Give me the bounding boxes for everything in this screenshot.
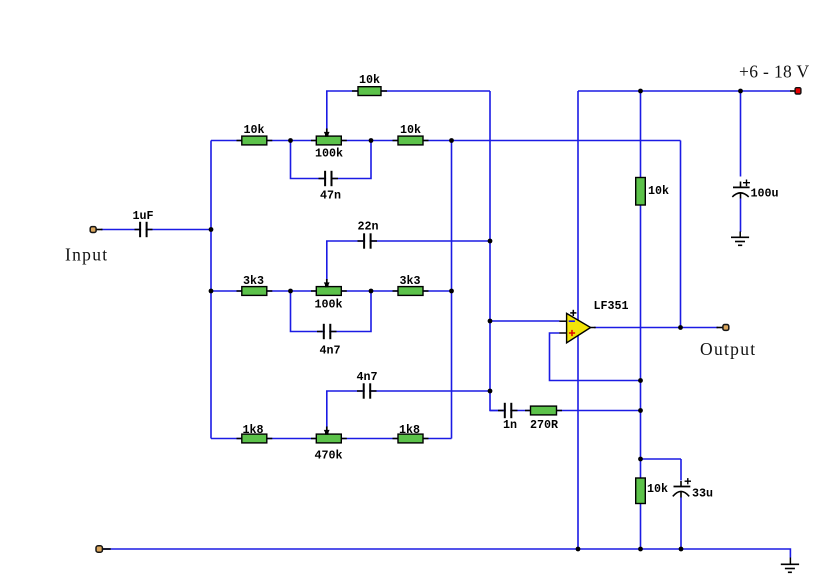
wire op-amp output y=327.5 [594,327,718,329]
svg-text:1n: 1n [503,418,517,432]
node rail bias junction [638,547,643,552]
resistor R 1k8 band3 left [237,423,273,443]
wire output drop x=680.5 [680,141,682,328]
wire input bus x=211 [210,141,212,439]
node bias 33u junction [638,457,643,462]
potentiometer 100k band2 [311,279,347,312]
op-amp U1 LF351 [559,299,628,343]
svg-text:10k: 10k [359,73,380,87]
capacitor C 100u electrolytic [732,180,778,201]
potentiometer 100k band1 [311,129,347,161]
wire 1n 270R row y=410.5 [490,410,641,412]
potentiometer 470k band3 [311,427,347,463]
wire band1 row y=140 [211,140,681,142]
wire noninverting stub and feedback [550,333,641,381]
wire input coupling y=229.5 [101,229,211,231]
svg-text:100u: 100u [751,187,779,201]
resistor R 10k bias upper (vertical) [636,178,669,206]
terminal supply red [790,88,801,94]
svg-text:470k: 470k [314,449,342,463]
node power rail bias junction [638,89,643,94]
node 4n7 bus junction [488,389,493,394]
wire 33u drop x=681 [680,459,682,481]
svg-text:1uF: 1uF [132,209,153,223]
svg-text:3k3: 3k3 [399,274,420,288]
svg-text:100k: 100k [315,147,343,161]
node input junction [209,227,214,232]
svg-text:100k: 100k [314,298,342,312]
resistor R 3k3 band2 right [393,274,429,295]
resistor R 10k band1 right [393,123,429,145]
svg-text:+6 - 18 V: +6 - 18 V [739,62,810,82]
resistor R 10k top feedback [352,73,387,96]
node rail supply junction [576,547,581,552]
wire inverting input y=321 [490,320,560,322]
wire band collect x=451.5 [451,141,453,439]
ground under 100u [731,232,749,246]
resistor R 10k band1 left [237,123,273,145]
wire bottom rail y=549 [103,549,790,558]
terminal ground bottom left [96,546,111,552]
svg-text:Input: Input [65,245,108,265]
wire 4n7 band3 row y=391 [327,391,490,427]
node rail 33u junction [679,547,684,552]
node 22n bus junction [488,239,493,244]
svg-text:10k: 10k [647,482,668,496]
node feedback junction [638,378,643,383]
svg-text:10k: 10k [648,184,669,198]
node band2 nodeB junction [369,289,374,294]
capacitor C 1uF input [132,209,153,237]
svg-text:LF351: LF351 [593,299,628,313]
wire supply line x=578 through op-amp [577,91,579,549]
wire 33u branch y=459 [641,458,682,460]
node power rail 100u junction [738,89,743,94]
capacitor C 22n band2 [357,220,378,249]
node inverting input junction [488,319,493,324]
node band2 right T junction [449,289,454,294]
node band1 right T junction [449,138,454,143]
svg-text:4n7: 4n7 [319,344,340,358]
wire 47n loop [291,141,372,179]
node output junction [678,325,683,330]
svg-text:1k8: 1k8 [242,423,263,437]
node band2 nodeA junction [288,289,293,294]
capacitor C 1n [498,403,518,432]
resistor R 1k8 band3 right [393,423,429,443]
svg-text:270R: 270R [530,418,558,432]
capacitor C 47n band1 [319,171,342,203]
wire bias line x=640 [640,91,642,549]
svg-text:1k8: 1k8 [399,423,420,437]
wire 33u to rail [680,498,682,550]
wire minus-input bus x=490 [490,91,504,411]
node 270R bias junction [638,408,643,413]
svg-text:4n7: 4n7 [356,370,377,384]
svg-text:Output: Output [700,339,756,359]
resistor R 10k bias lower (vertical) [636,478,668,504]
capacitor C 4n7 band3 [356,370,377,399]
wire 22n row y=241 [327,241,490,280]
capacitor C 4n7 band2 [317,324,341,358]
wire 100u to ground [740,199,742,233]
svg-text:10k: 10k [243,123,264,137]
svg-text:3k3: 3k3 [243,274,264,288]
terminal input [90,227,102,233]
svg-text:10k: 10k [400,123,421,137]
node band1 nodeA junction [288,138,293,143]
wire band2 row y=291 [211,290,452,292]
capacitor C 33u electrolytic [673,478,713,500]
resistor R 3k3 band2 left [237,274,273,295]
terminal output [717,325,729,331]
node band1 nodeB junction [369,138,374,143]
wire band3 row y=438.5 [211,438,452,440]
wire 4n7 band2 loop [291,291,372,332]
svg-text:33u: 33u [692,487,713,501]
ground bottom right [781,558,799,573]
svg-text:47n: 47n [320,189,341,203]
node band2 left junction [209,289,214,294]
wire 100u branch x=740.5 [740,91,742,177]
svg-text:22n: 22n [357,220,378,234]
wire power rail y=91 [578,90,790,92]
wire band1 top horizontal y=91 [327,91,490,129]
resistor R 270R [525,406,562,432]
